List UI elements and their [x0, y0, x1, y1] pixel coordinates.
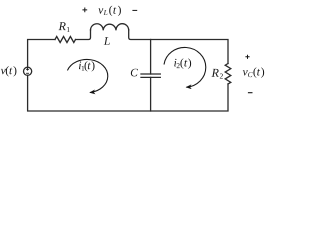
- label R2: [212, 69, 223, 79]
- label vC(t): [243, 67, 264, 77]
- resistor R1: [55, 37, 75, 43]
- minus sign right of R2: [248, 92, 253, 94]
- plus sign right of R2: [245, 55, 249, 59]
- voltage source v(t) circle: [24, 67, 32, 75]
- plus sign above inductor: [82, 7, 87, 12]
- source plus mark: [26, 68, 29, 71]
- label R1: [59, 22, 70, 32]
- label i2(t): [174, 58, 191, 68]
- label C: [131, 69, 138, 77]
- wire: inductor right riser, top wire to top-right corner, down to R2: [129, 30, 228, 64]
- label v(t): [1, 66, 17, 76]
- mesh current arrow i1: [67, 59, 107, 92]
- mesh current arrow i2: [164, 47, 206, 87]
- label L: [104, 37, 110, 45]
- capacitor C top lead: [150, 40, 152, 75]
- label vL(t): [98, 6, 121, 16]
- capacitor C plates: [141, 74, 160, 77]
- resistor R2 (vertical): [225, 64, 231, 84]
- minus sign above inductor: [132, 9, 137, 11]
- wire: R2 to bottom-right corner, bottom wire, up to source bottom: [28, 75, 228, 111]
- wire: left upper segment and top-left corner to R1: [28, 40, 55, 68]
- source minus mark: [26, 72, 29, 75]
- label i1(t): [79, 61, 95, 71]
- wire: R1 to inductor left riser: [76, 30, 91, 40]
- capacitor C bottom lead: [150, 77, 152, 111]
- inductor L (3 humps): [91, 24, 129, 31]
